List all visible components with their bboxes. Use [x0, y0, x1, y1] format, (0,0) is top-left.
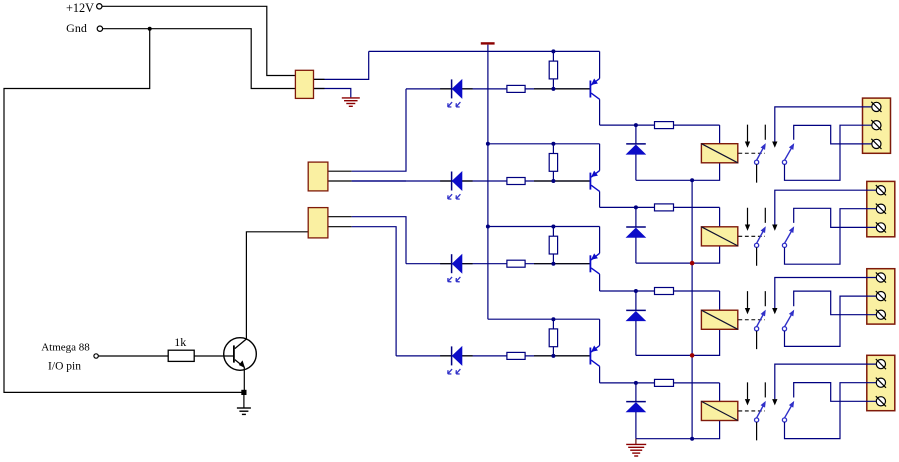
junction flyback diode D6 cathode — [634, 205, 638, 209]
connector J2 — [308, 162, 328, 191]
wire +12V rail channel 2 — [488, 143, 600, 145]
wire +12V rail channel 3 — [488, 226, 600, 228]
relay K2 contact B pivot — [782, 243, 786, 247]
relay K1 contact A fixed pin 1 — [747, 125, 749, 142]
relay K2 contact B fixed pin 2 wire to terminal 3 — [794, 208, 877, 227]
relay K4 contact B blade — [785, 403, 794, 418]
wire +12V vertical bus — [487, 45, 489, 320]
wire LED D1 row — [406, 88, 590, 90]
wire relay K2 common pole to terminal 2 — [785, 209, 877, 265]
diode D6 flyback — [626, 226, 646, 228]
transistor Q3 PNP — [589, 255, 591, 272]
junction ground bus channel 2 — [690, 261, 695, 266]
junction base node Q3 — [551, 262, 555, 266]
resistor R32 series — [507, 260, 525, 267]
terminal block TB2 — [867, 181, 895, 236]
junction Gnd — [148, 27, 152, 31]
wire Q4 collector down — [599, 366, 601, 383]
relay K4 contact A pole stub — [756, 422, 758, 440]
svg-text:I/O pin: I/O pin — [48, 360, 81, 372]
terminal block TB1 — [863, 98, 891, 153]
wire Q3 emitter to rail — [599, 227, 601, 254]
junction ground bus channel 1 — [690, 178, 694, 182]
transistor Q1 PNP — [589, 81, 591, 98]
relay K4 coil — [701, 401, 737, 420]
relay K4 contact A fixed pin 2 — [764, 382, 766, 397]
wire Q2 collector down — [599, 191, 601, 207]
wire relay K1 coil pin 1 — [719, 125, 721, 144]
terminal block TB3 — [867, 269, 895, 324]
relay K1 contact A blade — [757, 145, 765, 160]
LED D3 emission arrows — [448, 277, 452, 282]
wire Q2 emitter to rail — [599, 144, 601, 171]
wire relay K4 coil pin 2 to ground bus — [636, 421, 720, 439]
resistor R1 1k — [168, 350, 194, 361]
LED D2 emission arrows — [448, 194, 452, 199]
junction flyback diode D8 cathode — [634, 381, 638, 385]
relay K1 contact B fixed pin 2 wire to terminal 3 — [794, 125, 872, 143]
resistor R34 coil series — [655, 288, 674, 295]
terminal TB4 screw 2 — [876, 378, 885, 387]
relay K3 contact B fixed pin 2 wire to terminal 3 — [794, 291, 877, 315]
junction ground bus channel 4 — [690, 437, 694, 441]
relay K1 contact A pivot — [755, 160, 759, 164]
relay K3 contact B blade — [785, 312, 794, 327]
relay K4 contact B fixed pin 1 wire to terminal 1 — [775, 364, 877, 399]
relay K2 actuation dashed link — [738, 235, 765, 237]
resistor R33 pull-up — [549, 236, 557, 254]
wire pull-up resistor top R23 — [552, 144, 554, 154]
power rail cap +12V bus — [481, 42, 495, 44]
terminal TB4 screw 1 — [876, 360, 885, 369]
wire Q5 emitter down — [243, 367, 245, 392]
wire +12V rail channel 4 — [488, 318, 600, 320]
junction base node Q1 — [551, 87, 555, 91]
svg-text:1k: 1k — [174, 335, 186, 349]
terminal I/O pin — [94, 354, 98, 358]
relay K3 contact A blade — [757, 312, 765, 327]
wire relay K2 coil pin 2 to ground bus — [636, 246, 720, 263]
wire pull-up resistor bottom R13 — [552, 79, 554, 89]
wire Q3 collector down — [599, 274, 601, 291]
LED D1 — [451, 79, 453, 98]
relay K2 contact A blade — [757, 229, 765, 244]
wire +12V rail channel 1 — [369, 50, 600, 52]
wire Q5 collector to connector J3 — [246, 232, 308, 339]
wire flyback diode D5 anode stem — [635, 154, 637, 180]
relay K2 coil — [701, 227, 737, 246]
transistor Q4 PNP — [589, 348, 591, 365]
resistor R14 coil series — [655, 122, 674, 129]
resistor R43 pull-up — [549, 329, 557, 347]
junction bus rail 3 — [486, 225, 490, 229]
relay K4 contact B pivot — [782, 418, 786, 422]
wire pull-up resistor top R33 — [552, 227, 554, 237]
wire relay K1 coil pin 2 to ground bus — [636, 163, 720, 181]
terminal TB1 screw 1 — [872, 102, 881, 111]
wire Gnd to power connector J1 pin 2 — [103, 29, 296, 89]
terminal TB4 screw 3 — [876, 397, 885, 406]
terminal Gnd — [97, 26, 102, 31]
wire J1 pin 4 to ground — [314, 89, 351, 98]
terminal TB2 screw 3 — [876, 223, 885, 232]
relay K3 contact B pivot — [782, 327, 786, 331]
wire J2 pin 2 to LED D2 row — [328, 180, 352, 182]
wire flyback diode D6 cathode stem — [635, 207, 637, 226]
LED D1 emission arrows — [448, 102, 452, 107]
junction rail R33 — [551, 225, 555, 229]
relay K1 contact A fixed pin 2 — [764, 125, 766, 140]
diode D7 flyback — [626, 309, 646, 311]
relay K4 actuation dashed link — [738, 410, 765, 412]
relay K2 contact B blade — [785, 229, 794, 244]
wire Q4 emitter to rail — [599, 319, 601, 345]
terminal TB1 screw 3 — [872, 139, 881, 148]
junction Q5 emitter — [241, 390, 246, 395]
wire ground bus to ground symbol — [635, 439, 637, 444]
wire relay K3 coil pin 2 to ground bus — [636, 329, 720, 355]
relay K3 contact B fixed pin 1 wire to terminal 1 — [775, 278, 877, 308]
wire Q1 collector row — [600, 124, 720, 126]
wire flyback diode D5 cathode stem — [635, 125, 637, 144]
wire relay K2 coil pin 1 — [719, 207, 721, 226]
wire relay K4 common pole to terminal 2 — [785, 383, 877, 439]
relay K4 contact A pivot — [755, 418, 759, 422]
svg-text:Gnd: Gnd — [66, 21, 87, 35]
relay K3 contact A fixed pin 1 — [747, 291, 749, 308]
terminal TB3 screw 2 — [876, 292, 885, 301]
wire Q1 collector down — [599, 99, 601, 125]
relay K3 actuation dashed link — [738, 319, 765, 321]
wire LED D3 row — [406, 263, 590, 265]
wire J2 pin 1 to LED D1 — [328, 170, 352, 172]
wire Q1 emitter to rail — [599, 51, 601, 78]
junction rail R43 — [551, 317, 555, 321]
wire LED D4 row — [396, 355, 590, 357]
wire pull-up resistor top R13 — [552, 51, 554, 61]
wire Q4 collector row — [600, 382, 720, 384]
wire relay K1 common pole to terminal 2 — [785, 125, 872, 180]
wire flyback diode D7 anode stem — [635, 321, 637, 356]
relay K3 coil — [701, 310, 737, 329]
junction flyback diode D7 cathode — [634, 289, 638, 293]
connector J3 — [308, 208, 328, 238]
terminal TB3 screw 1 — [876, 273, 885, 282]
LED D3 — [451, 254, 453, 273]
wire LED D2 row — [352, 180, 591, 182]
resistor R23 pull-up — [549, 154, 557, 172]
junction flyback diode D5 cathode — [634, 123, 638, 127]
ground power input — [342, 97, 360, 99]
relay K1 coil — [701, 144, 737, 163]
junction base node Q2 — [551, 179, 555, 183]
LED D4 emission arrows — [448, 369, 452, 374]
terminal TB2 screw 1 — [876, 186, 885, 195]
wire flyback diode D8 cathode stem — [635, 383, 637, 402]
relay K1 contact A pole stub — [756, 164, 758, 182]
resistor R22 series — [507, 178, 525, 185]
relay K2 contact A pivot — [755, 243, 759, 247]
wire J1 pin 3 to +12V rail — [314, 51, 369, 79]
junction rail R13 — [551, 49, 555, 53]
wire R1 to Q5 base — [194, 355, 234, 357]
diode D5 flyback — [626, 143, 646, 145]
terminal TB2 screw 2 — [876, 204, 885, 213]
relay K3 contact A pivot — [755, 327, 759, 331]
svg-text:+12V: +12V — [66, 1, 94, 15]
relay K2 contact A fixed pin 2 — [764, 208, 766, 223]
relay K1 actuation dashed link — [738, 152, 765, 154]
connector J1 power input — [295, 70, 313, 98]
relay K1 contact B blade — [785, 145, 794, 160]
relay K1 contact B pivot — [782, 160, 786, 164]
ground Q5 emitter — [243, 395, 245, 408]
relay K2 contact A pole stub — [756, 247, 758, 265]
diode D8 flyback — [626, 401, 646, 403]
LED D4 — [451, 346, 453, 365]
resistor R24 coil series — [655, 204, 674, 211]
wire relay K3 coil pin 1 — [719, 291, 721, 310]
junction base node Q4 — [551, 354, 555, 358]
junction bus rail 2 — [486, 142, 490, 146]
LED D2 — [451, 172, 453, 191]
wire flyback diode D7 cathode stem — [635, 291, 637, 310]
relay K3 contact A pole stub — [756, 331, 758, 349]
wire ground bus vertical — [691, 180, 693, 438]
relay K2 contact A fixed pin 1 — [747, 208, 749, 225]
wire I/O pin to resistor R1 — [98, 355, 168, 357]
wire Q2 collector row — [600, 206, 720, 208]
relay K3 contact A fixed pin 2 — [764, 291, 766, 306]
wire J3 pin 1 to LED D3 — [328, 216, 352, 218]
resistor R44 coil series — [655, 379, 674, 386]
terminal TB1 screw 2 — [872, 121, 881, 130]
wire pull-up resistor bottom R33 — [552, 254, 554, 264]
terminal +12V — [97, 4, 102, 9]
relay K4 contact B fixed pin 2 wire to terminal 3 — [794, 383, 877, 402]
wire +12V to power connector J1 pin 1 — [102, 6, 295, 75]
wire relay K4 coil pin 1 — [719, 383, 721, 402]
transistor Q5 NPN — [224, 338, 257, 371]
resistor R12 series — [507, 85, 525, 92]
wire pull-up resistor bottom R23 — [552, 171, 554, 181]
relay K2 contact B fixed pin 1 wire to terminal 1 — [775, 190, 877, 224]
relay K1 contact B fixed pin 1 wire to terminal 1 — [775, 107, 872, 142]
resistor R13 pull-up — [549, 61, 557, 79]
resistor R42 series — [507, 352, 525, 359]
svg-text:Atmega 88: Atmega 88 — [41, 342, 90, 354]
transistor Q2 PNP — [589, 173, 591, 190]
wire J3 pin 2 to LED D4 — [328, 226, 352, 228]
wire flyback diode D6 anode stem — [635, 237, 637, 263]
wire pull-up resistor bottom R43 — [552, 347, 554, 356]
relay K4 contact A fixed pin 1 — [747, 382, 749, 399]
wire Q3 collector row — [600, 290, 720, 292]
terminal TB3 screw 3 — [876, 310, 885, 319]
ground relay return — [626, 443, 646, 445]
junction ground bus channel 3 — [690, 353, 695, 358]
junction rail R23 — [551, 142, 555, 146]
wire Gnd branch down left edge to Q5 emitter — [4, 29, 244, 393]
wire pull-up resistor top R43 — [552, 319, 554, 329]
wire relay K3 common pole to terminal 2 — [785, 296, 877, 346]
terminal block TB4 — [867, 355, 895, 410]
relay K4 contact A blade — [757, 403, 765, 418]
wire flyback diode D8 anode stem — [635, 412, 637, 439]
